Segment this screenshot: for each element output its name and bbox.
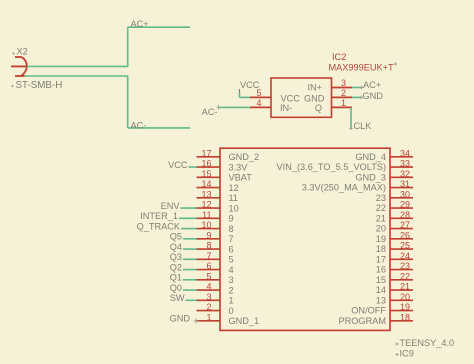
- svg-text:15: 15: [376, 275, 386, 285]
- svg-text:32: 32: [400, 169, 410, 179]
- svg-text:TEENSY_4.0: TEENSY_4.0: [400, 338, 455, 348]
- svg-text:VCC: VCC: [168, 160, 188, 170]
- svg-text:0: 0: [229, 306, 234, 316]
- svg-text:VIN_(3.6_TO_5.5_VOLTS): VIN_(3.6_TO_5.5_VOLTS): [277, 162, 386, 172]
- svg-text:Q5: Q5: [170, 232, 182, 242]
- svg-text:VCC: VCC: [281, 93, 301, 103]
- svg-text:AC+: AC+: [363, 80, 381, 90]
- svg-text:26: 26: [400, 230, 410, 240]
- svg-text:23: 23: [376, 193, 386, 203]
- svg-text:6: 6: [229, 244, 234, 254]
- svg-text:20: 20: [376, 224, 386, 234]
- svg-text:GND_2: GND_2: [229, 152, 260, 162]
- svg-text:17: 17: [376, 254, 386, 264]
- svg-text:X2: X2: [17, 47, 28, 57]
- svg-text:4: 4: [229, 265, 234, 275]
- svg-text:9: 9: [229, 214, 234, 224]
- svg-text:6: 6: [206, 261, 211, 271]
- svg-text:AC+: AC+: [131, 19, 149, 29]
- svg-text:Q: Q: [315, 103, 322, 113]
- svg-text:GND: GND: [170, 314, 191, 324]
- svg-text:GND_3: GND_3: [355, 172, 386, 182]
- svg-text:15: 15: [201, 169, 211, 179]
- svg-text:34: 34: [400, 148, 410, 158]
- svg-text:11: 11: [229, 193, 239, 203]
- svg-text:7: 7: [206, 251, 211, 261]
- svg-text:16: 16: [376, 265, 386, 275]
- svg-text:3: 3: [206, 292, 211, 302]
- svg-text:5: 5: [206, 271, 211, 281]
- svg-text:9: 9: [206, 230, 211, 240]
- svg-text:Q2: Q2: [170, 262, 182, 272]
- svg-text:5: 5: [229, 255, 234, 265]
- svg-text:21: 21: [400, 282, 410, 292]
- svg-text:8: 8: [206, 241, 211, 251]
- svg-text:GND: GND: [304, 93, 325, 103]
- svg-text:17: 17: [201, 148, 211, 158]
- svg-text:25: 25: [400, 241, 410, 251]
- svg-text:8: 8: [229, 224, 234, 234]
- svg-text:20: 20: [400, 292, 410, 302]
- svg-text:3: 3: [341, 78, 346, 88]
- svg-text:GND: GND: [363, 91, 384, 101]
- svg-text:23: 23: [400, 261, 410, 271]
- svg-text:29: 29: [400, 200, 410, 210]
- svg-text:2: 2: [341, 88, 346, 98]
- svg-text:VCC: VCC: [240, 80, 260, 90]
- svg-text:11: 11: [202, 210, 211, 220]
- svg-text:ON/OFF: ON/OFF: [351, 306, 386, 316]
- svg-text:ST-SMB-H: ST-SMB-H: [16, 80, 63, 91]
- svg-text:Q4: Q4: [170, 242, 182, 252]
- svg-text:IC2: IC2: [332, 52, 346, 62]
- svg-text:1: 1: [229, 296, 234, 306]
- svg-text:2: 2: [206, 302, 211, 312]
- svg-text:3: 3: [229, 275, 234, 285]
- svg-text:1: 1: [341, 98, 346, 108]
- svg-text:28: 28: [400, 210, 410, 220]
- svg-text:33: 33: [400, 159, 410, 169]
- svg-text:CLK: CLK: [354, 121, 373, 131]
- svg-text:ENV: ENV: [161, 201, 181, 211]
- svg-text:4: 4: [256, 98, 261, 108]
- svg-text:12: 12: [229, 183, 239, 193]
- svg-text:31: 31: [400, 179, 410, 189]
- svg-text:18: 18: [400, 312, 410, 322]
- svg-text:1: 1: [206, 312, 211, 322]
- svg-text:3.3V: 3.3V: [229, 162, 249, 172]
- svg-text:Q_TRACK: Q_TRACK: [137, 221, 181, 231]
- svg-text:30: 30: [400, 189, 410, 199]
- svg-text:AC-: AC-: [131, 121, 147, 131]
- svg-text:IN-: IN-: [280, 103, 292, 113]
- svg-text:4: 4: [206, 282, 211, 292]
- svg-text:27: 27: [400, 220, 410, 230]
- svg-text:12: 12: [201, 200, 211, 210]
- svg-text:2: 2: [229, 285, 234, 295]
- svg-text:IC9: IC9: [400, 349, 414, 359]
- svg-text:21: 21: [376, 213, 386, 223]
- svg-text:18: 18: [376, 244, 386, 254]
- svg-text:7: 7: [229, 234, 234, 244]
- svg-text:IN+: IN+: [307, 82, 322, 92]
- svg-text:VBAT: VBAT: [229, 173, 253, 183]
- svg-text:Q3: Q3: [170, 252, 182, 262]
- svg-text:AC-: AC-: [202, 107, 218, 117]
- svg-text:14: 14: [201, 179, 211, 189]
- svg-text:10: 10: [229, 203, 239, 213]
- svg-text:19: 19: [376, 234, 386, 244]
- svg-text:13: 13: [376, 295, 386, 305]
- svg-text:PROGRAM: PROGRAM: [339, 316, 386, 326]
- svg-text:INTER_1: INTER_1: [140, 211, 178, 221]
- svg-text:13: 13: [201, 189, 211, 199]
- svg-text:MAX999EUK+T: MAX999EUK+T: [329, 63, 394, 73]
- svg-text:24: 24: [400, 251, 410, 261]
- svg-text:10: 10: [201, 220, 211, 230]
- svg-text:3.3V(250_MA_MAX): 3.3V(250_MA_MAX): [302, 183, 386, 193]
- svg-text:14: 14: [376, 285, 386, 295]
- svg-text:16: 16: [201, 159, 211, 169]
- svg-text:GND_1: GND_1: [229, 316, 260, 326]
- svg-text:Q0: Q0: [170, 283, 182, 293]
- svg-text:GND_4: GND_4: [355, 152, 386, 162]
- svg-text:22: 22: [376, 203, 386, 213]
- svg-text:22: 22: [400, 271, 410, 281]
- svg-text:19: 19: [400, 302, 410, 312]
- svg-text:Q1: Q1: [170, 273, 182, 283]
- svg-text:SW: SW: [170, 293, 185, 303]
